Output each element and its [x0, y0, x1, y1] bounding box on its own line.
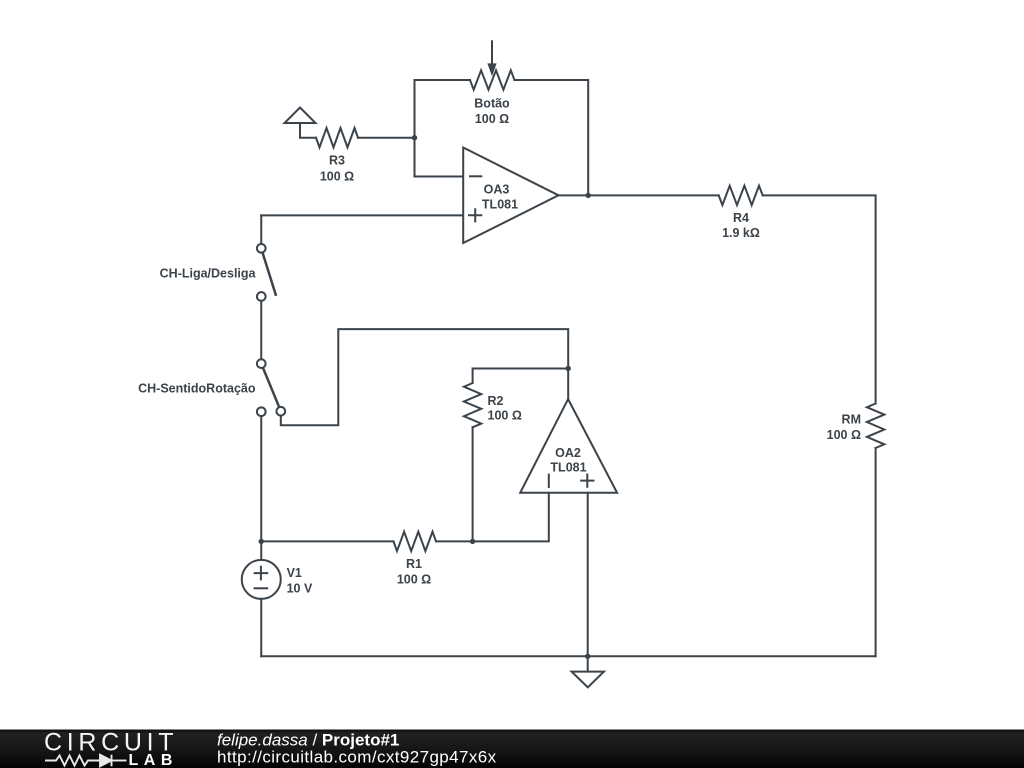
svg-text:R4: R4 [733, 211, 749, 225]
node V1/R1 junction [259, 539, 264, 544]
wire R2 top to node [473, 368, 569, 370]
wire OA3 output to R4 [559, 194, 719, 196]
op-amp OA2 TL081 [520, 399, 617, 493]
label R1 value [397, 557, 431, 586]
label RM value [827, 413, 861, 443]
resistor R2 zigzag [464, 383, 481, 427]
node ground junction [585, 654, 590, 659]
wire V1 top lead [260, 541, 262, 560]
node OA3 output junction [586, 193, 591, 198]
svg-text:R3: R3 [329, 154, 345, 168]
wire R2 top lead [472, 369, 474, 384]
svg-text:100 Ω: 100 Ω [397, 572, 431, 586]
svg-text:100 Ω: 100 Ω [827, 428, 861, 442]
svg-text:1.9 kΩ: 1.9 kΩ [722, 226, 760, 240]
wire V1 bottom lead to rail [260, 599, 262, 656]
svg-text:100 Ω: 100 Ω [320, 169, 354, 183]
resistor R1 zigzag [394, 532, 437, 551]
wire OA3 inverting input [415, 176, 464, 178]
svg-text:TL081: TL081 [550, 460, 586, 474]
svg-text:CH-Liga/Desliga: CH-Liga/Desliga [160, 267, 257, 281]
wire VCC stem to R3 [300, 123, 316, 138]
wire switch2 left throw down to R1 node [260, 416, 262, 541]
ground symbol [572, 672, 604, 688]
svg-text:V1: V1 [287, 566, 302, 580]
resistor R3 zigzag [316, 128, 358, 147]
wire OA2 output lead [567, 369, 569, 400]
resistor RM zigzag [867, 404, 884, 449]
wire bottom rail [261, 655, 875, 657]
wire switch1 to switch2 [260, 301, 262, 359]
wire R4 to right rail down to RM [763, 195, 876, 403]
ground stem [587, 656, 589, 671]
resistor R4 zigzag [719, 186, 763, 205]
wire RM bottom to rail [875, 448, 877, 656]
wire switch1 top lead [260, 215, 262, 244]
wire switch2 right throw to OA2 output node [281, 329, 568, 425]
label Botao value [474, 97, 510, 127]
svg-text:OA2: OA2 [555, 446, 581, 460]
wire V1 top to R1 [261, 540, 393, 542]
wire R1 right to node [436, 540, 473, 542]
VCC terminal triangle at R3 [285, 108, 316, 124]
voltage source V1 10V [242, 560, 313, 599]
label R4 value [722, 211, 760, 240]
label R3 value [320, 154, 354, 184]
svg-text:100 Ω: 100 Ω [488, 409, 522, 423]
svg-text:TL081: TL081 [482, 197, 518, 211]
svg-text:RM: RM [842, 413, 861, 427]
wire OA3 non-inverting input [261, 214, 463, 216]
switch CH-Liga/Desliga [257, 244, 276, 301]
potentiometer wiper arrow [487, 41, 496, 76]
footer bar [0, 730, 1024, 768]
svg-text:CH-SentidoRotação: CH-SentidoRotação [138, 382, 256, 396]
svg-text:R1: R1 [406, 557, 422, 571]
svg-text:OA3: OA3 [484, 183, 510, 197]
wire Botao loop top-right + right vertical to OA3 output [515, 80, 589, 195]
node R1/R2 junction [470, 539, 475, 544]
svg-text:R2: R2 [488, 394, 504, 408]
svg-text:100 Ω: 100 Ω [475, 112, 509, 126]
wire R3 to loop junction [358, 137, 415, 139]
svg-text:http://circuitlab.com/cxt927gp: http://circuitlab.com/cxt927gp47x6x [217, 748, 497, 767]
wire OA2 non-inverting input down to ground rail [587, 493, 589, 657]
wire OA2 inverting input down-left to R1 node [473, 493, 549, 542]
svg-text:LAB: LAB [129, 752, 178, 768]
node OA2 output junction [566, 366, 571, 371]
potentiometer Botao 100 Ohm zigzag [470, 70, 515, 89]
switch CH-SentidoRotacao [257, 359, 285, 416]
logo resistor-diode glyph [45, 755, 127, 767]
label R2 value [488, 394, 522, 423]
op-amp OA3 TL081 [463, 148, 558, 244]
svg-text:felipe.dassa / Projeto#1: felipe.dassa / Projeto#1 [217, 730, 399, 749]
node junction R3/loop [412, 135, 417, 140]
svg-text:Botão: Botão [474, 97, 510, 111]
svg-text:10 V: 10 V [287, 581, 313, 595]
wire R2 bottom lead to R1 node [472, 427, 474, 541]
wire Botao loop left+top [415, 80, 471, 177]
